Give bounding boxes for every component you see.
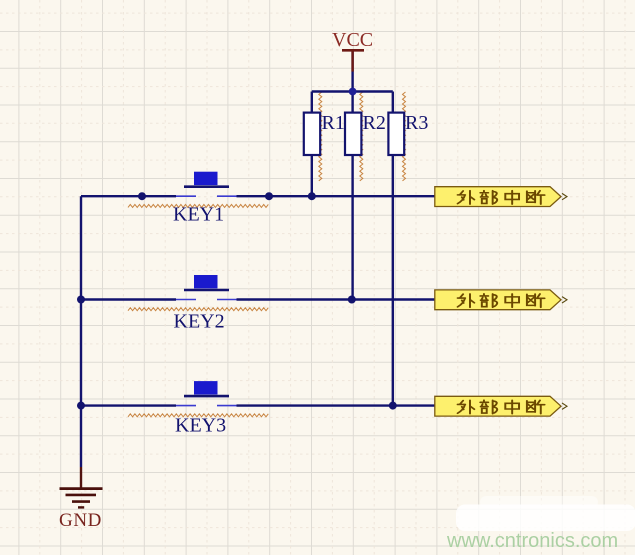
svg-text:VCC: VCC [332, 29, 373, 51]
svg-text:KEY2: KEY2 [174, 311, 225, 333]
svg-text:GND: GND [59, 510, 102, 531]
svg-text:KEY1: KEY1 [173, 204, 224, 226]
svg-text:R3: R3 [405, 112, 428, 134]
svg-text:KEY3: KEY3 [175, 415, 226, 437]
svg-text:R1: R1 [322, 112, 345, 134]
svg-text:R2: R2 [363, 112, 386, 134]
svg-text:www.cntronics.com: www.cntronics.com [446, 530, 618, 552]
